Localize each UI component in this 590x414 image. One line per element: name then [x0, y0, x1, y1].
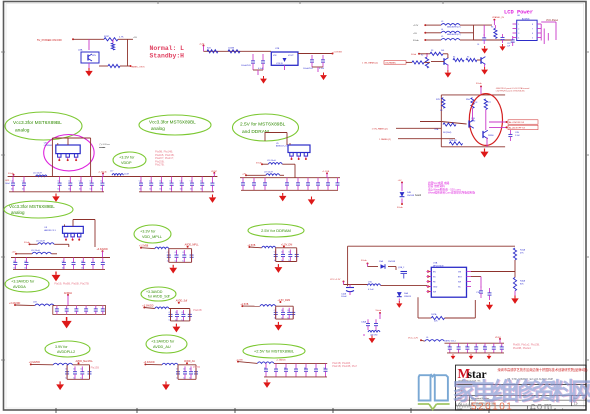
- svg-text:0.1uF: 0.1uF: [319, 68, 325, 70]
- svg-text:C1: C1: [139, 181, 141, 183]
- svg-text:5Vstb: 5Vstb: [397, 206, 403, 209]
- svg-text:R47A: R47A: [431, 313, 437, 316]
- svg-text:+5V: +5V: [133, 37, 137, 39]
- svg-text:10u: 10u: [24, 268, 27, 270]
- svg-text:Pla27B,: Pla27B,: [155, 163, 165, 167]
- svg-text:C4: C4: [24, 261, 26, 263]
- svg-text:深圳市高德学艺苑东区南边第十栟国际技术创新研究院(品牌4楼): 深圳市高德学艺苑东区南边第十栟国际技术创新研究院(品牌4楼): [498, 367, 588, 372]
- svg-text:C0: C0: [281, 252, 283, 254]
- svg-text:AMS1117-2.5: AMS1117-2.5: [276, 144, 287, 147]
- svg-text:6: 6: [532, 33, 533, 35]
- svg-text:C0: C0: [175, 252, 177, 254]
- svg-text:VCC+1.2V: VCC+1.2V: [330, 279, 341, 281]
- svg-text:+1.5V_DM: +1.5V_DM: [281, 243, 292, 246]
- svg-text:C4: C4: [477, 44, 479, 46]
- svg-text:10u: 10u: [190, 189, 193, 191]
- svg-text:R3: R3: [431, 50, 433, 52]
- svg-text:10u: 10u: [90, 189, 93, 191]
- svg-text:C0: C0: [175, 312, 177, 314]
- svg-text:SW: SW: [433, 292, 436, 294]
- svg-text:2.5V for DDRAM: 2.5V for DDRAM: [261, 228, 291, 233]
- svg-text:C4: C4: [62, 261, 64, 263]
- svg-text:C1: C1: [11, 181, 13, 183]
- svg-text:C1: C1: [79, 181, 81, 183]
- svg-text:AVDD_AU: AVDD_AU: [153, 345, 171, 349]
- svg-text:L14 10uH: L14 10uH: [31, 250, 40, 252]
- svg-text:Normal: L: Normal: L: [150, 45, 185, 52]
- svg-text:R6: R6: [491, 27, 493, 29]
- svg-text:4.7K: 4.7K: [119, 37, 124, 39]
- svg-text:5Vstb: 5Vstb: [376, 309, 382, 312]
- svg-text:R41A: R41A: [520, 249, 526, 252]
- svg-text:网: 网: [571, 378, 590, 405]
- svg-text:AL-ADJ/OFF S3: AL-ADJ/OFF S3: [509, 127, 526, 130]
- svg-text:C1: C1: [200, 181, 202, 183]
- svg-text:5Vstb: 5Vstb: [413, 39, 419, 42]
- svg-text:10u: 10u: [149, 189, 152, 191]
- svg-text:C5: C5: [448, 346, 450, 348]
- svg-text:C42A: C42A: [341, 293, 347, 296]
- svg-text:C0: C0: [288, 252, 290, 254]
- svg-text:VDD_MPLL: VDD_MPLL: [142, 235, 162, 239]
- svg-text:.com: .com: [526, 402, 554, 413]
- svg-text:+2.5V for MST6X89BL: +2.5V for MST6X89BL: [254, 348, 295, 353]
- svg-text:1 ON_PANEL(2): 1 ON_PANEL(2): [372, 128, 388, 131]
- svg-text:R40A: R40A: [520, 280, 526, 283]
- svg-text:+3.3V for: +3.3V for: [140, 230, 156, 234]
- svg-text:C2: C2: [284, 368, 286, 370]
- svg-text:MAGLAYER(4.7): MAGLAYER(4.7): [447, 33, 461, 36]
- svg-text:+3.3AVDD for: +3.3AVDD for: [11, 280, 35, 284]
- svg-text:L19 10uH: L19 10uH: [264, 171, 273, 173]
- svg-text:Q3A: Q3A: [78, 49, 83, 52]
- svg-text:4N60?RG1 panel 0:5-5V R7A forw: 4N60?RG1 panel 0:5-5V R7A forward: [496, 87, 529, 90]
- svg-text:AVDD_Sdf: AVDD_Sdf: [176, 300, 188, 303]
- svg-text:10u: 10u: [22, 189, 25, 191]
- svg-text:10u: 10u: [200, 189, 203, 191]
- svg-text:(*)+3.3Vxxx: (*)+3.3Vxxx: [99, 144, 109, 146]
- svg-text:C4: C4: [81, 261, 83, 263]
- svg-text:C0: C0: [182, 252, 184, 254]
- svg-text:Www维修资料Com深圳研究所版权利版: Www维修资料Com深圳研究所版权利版: [428, 191, 475, 195]
- svg-text:Vcc3.3for MST6X89BL: Vcc3.3for MST6X89BL: [9, 204, 55, 209]
- svg-text:analog: analog: [11, 210, 25, 215]
- svg-text:MAGLAYER(4.7): MAGLAYER(4.7): [447, 26, 461, 29]
- svg-text:5Vstb: 5Vstb: [361, 259, 367, 262]
- svg-text:1N5819: 1N5819: [404, 296, 412, 298]
- svg-text:D6A: D6A: [404, 292, 409, 295]
- svg-text:1 ON_PANEL(2): 1 ON_PANEL(2): [362, 62, 378, 65]
- svg-text:C46A: C46A: [361, 321, 367, 324]
- svg-text:100uF: 100uF: [5, 183, 10, 185]
- svg-text:Q7A_2: Q7A_2: [398, 266, 405, 269]
- svg-text:AVDDPLL2: AVDDPLL2: [57, 350, 75, 354]
- svg-text:100uF/16V: 100uF/16V: [303, 68, 313, 70]
- svg-text:C1: C1: [22, 181, 24, 183]
- svg-text:4: 4: [518, 38, 519, 40]
- svg-text:10u: 10u: [159, 189, 162, 191]
- svg-text:GND: GND: [433, 287, 438, 289]
- svg-text:10u: 10u: [68, 189, 71, 191]
- svg-text:1000M: 1000M: [228, 48, 234, 50]
- svg-text:AL-ON/OFF S3: AL-ON/OFF S3: [509, 121, 525, 124]
- svg-text:10u: 10u: [62, 268, 65, 270]
- svg-text:10u: 10u: [139, 189, 142, 191]
- svg-text:10u: 10u: [79, 189, 82, 191]
- svg-text:+1.5VB: +1.5VB: [236, 360, 243, 362]
- svg-text:7: 7: [532, 29, 533, 31]
- svg-text:10u: 10u: [100, 189, 103, 191]
- svg-text:100uF: 100uF: [341, 296, 347, 298]
- svg-text:Standby:H: Standby:H: [150, 53, 185, 60]
- svg-text:VOUT: VOUT: [288, 55, 294, 57]
- svg-text:3: 3: [518, 33, 519, 35]
- svg-text:+3.3AVDD for: +3.3AVDD for: [151, 340, 175, 344]
- svg-text:10u: 10u: [13, 268, 16, 270]
- svg-text:Vcc3.3for MST6X89BL: Vcc3.3for MST6X89BL: [149, 119, 196, 124]
- svg-text:10u: 10u: [81, 268, 84, 270]
- svg-text:L78L33: L78L33: [276, 63, 284, 65]
- svg-text:1 PANEL(2): 1 PANEL(2): [379, 138, 391, 141]
- svg-text:C0: C0: [287, 310, 289, 312]
- svg-text:+3.3V for: +3.3V for: [119, 156, 135, 160]
- svg-text:VCC-Panel: VCC-Panel: [546, 19, 558, 22]
- svg-text:C1: C1: [68, 181, 70, 183]
- svg-text:+1.5VB: +1.5VB: [322, 171, 330, 173]
- svg-text:1N4148: 1N4148: [388, 261, 396, 263]
- svg-text:100uF/16V: 100uF/16V: [241, 65, 251, 67]
- svg-text:Pla13B: Pla13B: [91, 366, 100, 370]
- svg-text:ARS2 515-1: ARS2 515-1: [445, 340, 455, 343]
- svg-text:2N390: 2N390: [488, 135, 494, 137]
- svg-text:VPANEL_IN: VPANEL_IN: [492, 16, 504, 19]
- svg-text:10u: 10u: [169, 189, 172, 191]
- svg-text:VIN: VIN: [273, 55, 277, 57]
- svg-text:3.9V for: 3.9V for: [55, 345, 68, 349]
- svg-text:■■■■■: ■■■■■: [99, 146, 106, 149]
- svg-text:board: board: [415, 194, 422, 197]
- svg-text:R1B 47K: R1B 47K: [449, 140, 457, 142]
- svg-text:5Vstb: 5Vstb: [411, 53, 417, 56]
- svg-text:C5: C5: [500, 346, 502, 348]
- svg-text:C2: C2: [264, 368, 266, 370]
- svg-text:SW: SW: [458, 282, 461, 284]
- svg-text:1: 1: [518, 24, 519, 26]
- svg-text:C1: C1: [100, 181, 102, 183]
- svg-text:L278M05: L278M05: [44, 145, 53, 147]
- svg-text:2: 2: [518, 29, 519, 31]
- svg-text:C1: C1: [159, 181, 161, 183]
- svg-text:C1: C1: [180, 181, 182, 183]
- svg-text:Pla1B, Pla9B, Pla5B, Pla27B: Pla1B, Pla9B, Pla5B, Pla27B: [54, 281, 89, 285]
- svg-text:+1.5V_DM2: +1.5V_DM2: [277, 299, 290, 302]
- svg-text:C5: C5: [465, 346, 467, 348]
- svg-text:+3.3VSB: +3.3VSB: [333, 52, 342, 54]
- svg-text:2.5V for MST6X89BL: 2.5V for MST6X89BL: [240, 121, 286, 127]
- svg-text:for AVDD_Sdf: for AVDD_Sdf: [148, 295, 170, 299]
- svg-text:C4P8: C4P8: [5, 180, 9, 182]
- svg-text:+5V: +5V: [398, 180, 402, 182]
- svg-text:5: 5: [532, 38, 533, 40]
- svg-text:analog: analog: [15, 127, 30, 133]
- svg-text:10u: 10u: [11, 189, 14, 191]
- svg-text:L10 10uH: L10 10uH: [33, 173, 42, 175]
- svg-text:C0: C0: [80, 369, 82, 371]
- svg-text:C1: C1: [90, 181, 92, 183]
- svg-text:10u: 10u: [57, 189, 60, 191]
- svg-text:+1.5AVDD: +1.5AVDD: [276, 359, 286, 362]
- svg-text:8050: 8050: [471, 121, 475, 123]
- svg-text:L4B 1R0: L4B 1R0: [370, 335, 377, 337]
- svg-text:AVDD_MPLL: AVDD_MPLL: [185, 244, 200, 247]
- svg-text:D5A: D5A: [379, 260, 384, 263]
- svg-text:C0: C0: [183, 369, 185, 371]
- svg-text:5Vstb: 5Vstb: [476, 82, 482, 85]
- svg-text:4.7uH: 4.7uH: [368, 289, 374, 291]
- svg-text:R237: R237: [104, 36, 110, 38]
- svg-text:LG(?PH)/R1 panel 2:R3,R1A NC: LG(?PH)/R1 panel 2:R3,R1A NC: [496, 90, 526, 93]
- svg-text:Pla16B: Pla16B: [193, 308, 202, 312]
- svg-text:5V_POWER-ON/OFF: 5V_POWER-ON/OFF: [37, 38, 62, 42]
- svg-text:NC(2004): NC(2004): [443, 132, 452, 134]
- svg-text:Pla19B, Pla2a3: Pla19B, Pla2a3: [513, 346, 531, 350]
- svg-text:C4: C4: [13, 261, 15, 263]
- svg-text:1N4148: 1N4148: [407, 195, 415, 197]
- svg-text:C2: C2: [324, 368, 326, 370]
- svg-text:R2: R2: [421, 55, 423, 57]
- svg-text:10u: 10u: [180, 189, 183, 191]
- svg-text:+5V: +5V: [413, 33, 417, 35]
- svg-text:Pla7B: Pla7B: [193, 365, 200, 369]
- svg-text:VDDP: VDDP: [121, 161, 132, 165]
- svg-text:analog: analog: [151, 126, 165, 131]
- svg-text:D4B: D4B: [407, 192, 412, 194]
- svg-text:R4: R4: [453, 57, 455, 59]
- svg-text:C2: C2: [304, 368, 306, 370]
- svg-text:8: 8: [532, 24, 533, 26]
- svg-text:AVDDA: AVDDA: [13, 285, 26, 289]
- svg-text:U7B: U7B: [275, 48, 280, 50]
- svg-text:R5: R5: [467, 57, 469, 59]
- svg-text:AMS1117-3.3: AMS1117-3.3: [44, 229, 55, 232]
- svg-text:VCC+1.2V: VCC+1.2V: [408, 338, 418, 340]
- svg-text:AVDD_AU: AVDD_AU: [184, 360, 195, 363]
- svg-text:L10 10uH: L10 10uH: [36, 240, 45, 242]
- svg-text:Vcc3.3for MST6X89BL: Vcc3.3for MST6X89BL: [13, 120, 62, 126]
- svg-text:U7A: U7A: [433, 262, 438, 265]
- svg-text:C0: C0: [181, 312, 183, 314]
- svg-text:+3.3AVDD: +3.3AVDD: [146, 290, 163, 294]
- svg-text:10uH: 10uH: [124, 174, 129, 176]
- svg-text:C1: C1: [57, 181, 59, 183]
- svg-text:C0: C0: [189, 369, 191, 371]
- svg-text:520101: 520101: [471, 402, 513, 413]
- svg-text:R77: R77: [488, 102, 491, 104]
- svg-text:C0: C0: [281, 310, 283, 312]
- svg-text:C1: C1: [149, 181, 151, 183]
- svg-text:ON-PANEL: ON-PANEL: [385, 62, 397, 65]
- svg-text:PANEL_ON S: PANEL_ON S: [131, 66, 145, 69]
- svg-text:C1: C1: [169, 181, 171, 183]
- svg-text:+12V: +12V: [413, 25, 419, 27]
- svg-text:L20 10uH: L20 10uH: [267, 160, 276, 162]
- svg-text:C1: C1: [190, 181, 192, 183]
- svg-text:2.2uF: 2.2uF: [515, 135, 521, 137]
- svg-text:Pla21B, Pla13B, Pla7: Pla21B, Pla13B, Pla7: [332, 364, 357, 368]
- svg-text:C0: C0: [73, 369, 75, 371]
- svg-text:C5: C5: [483, 346, 485, 348]
